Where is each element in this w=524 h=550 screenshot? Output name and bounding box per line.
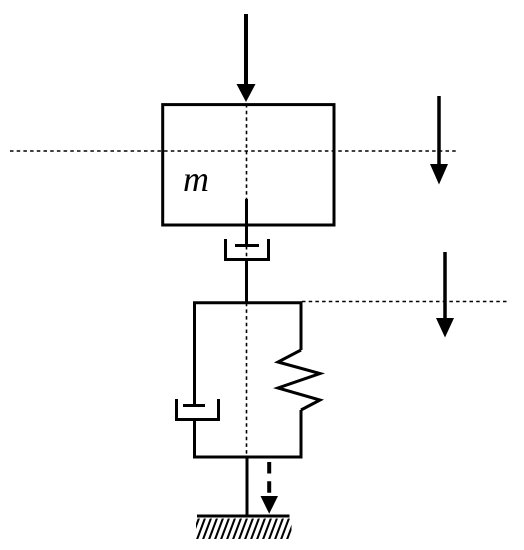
svg-text:m: m [183,159,209,199]
